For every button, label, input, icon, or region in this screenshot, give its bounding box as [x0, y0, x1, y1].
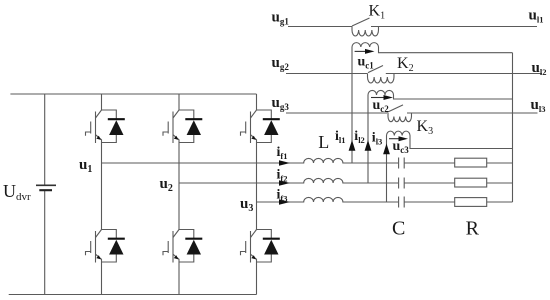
transformer K3 primary winding	[388, 113, 411, 122]
arrow u_c1 (voltage reference)	[355, 50, 366, 52]
svg-text:u1: u1	[79, 157, 92, 175]
svg-text:if2: if2	[277, 168, 288, 184]
arrow u_c3 (voltage reference)	[389, 138, 400, 140]
svg-text:uc2: uc2	[373, 98, 390, 114]
transformer K2 primary winding	[368, 74, 394, 84]
wire: DC top bus	[10, 93, 256, 95]
wire: K1 secondary right terminal to bus	[379, 47, 513, 53]
wire: R2 right to common bus	[487, 182, 513, 184]
arrow i_f1 on phase 1	[279, 160, 290, 166]
wire: riser i_l3 (K3 secondary left to phase 3)	[386, 136, 388, 203]
wire: phase line u2 with inductor L2	[179, 178, 398, 183]
transistor V2 (lower IGBT leg3 with freewheel diode)	[241, 230, 280, 263]
transistor V1 (upper IGBT leg1 with freewheel diode)	[86, 110, 125, 143]
svg-text:L: L	[318, 132, 329, 152]
arrow u_c2 (voltage reference)	[371, 97, 384, 99]
resistor R3	[455, 198, 487, 207]
arrow i_f3 on phase 3	[279, 199, 290, 205]
svg-text:K2: K2	[397, 55, 414, 74]
transformer K3 secondary winding	[387, 131, 410, 135]
resistor R1	[455, 158, 487, 167]
svg-text:u2: u2	[160, 176, 173, 194]
wire: phase line u3 with inductor L3	[257, 197, 399, 202]
capacitor C3	[399, 197, 405, 208]
capacitor C1	[399, 158, 405, 169]
svg-text:u3: u3	[240, 196, 253, 214]
wire: K3 secondary right terminal to bus	[410, 136, 513, 149]
svg-text:ug1: ug1	[272, 10, 290, 27]
svg-text:if3: if3	[277, 188, 288, 204]
capacitor C2	[399, 178, 405, 189]
wire: grid line 2 left (u_g2 side)	[286, 73, 368, 75]
transistor V4 (lower IGBT leg1 with freewheel diode)	[86, 230, 125, 263]
transistor V6 (lower IGBT leg2 with freewheel diode)	[163, 230, 202, 263]
svg-text:il3: il3	[372, 131, 383, 147]
svg-text:K3: K3	[417, 118, 434, 137]
battery U_dvr source wires	[44, 94, 46, 295]
svg-text:Udvr: Udvr	[3, 181, 31, 203]
wire: common vertical bus	[512, 53, 514, 202]
battery long plate	[36, 184, 56, 186]
arrow i_f2 on phase 2	[279, 180, 290, 186]
svg-text:if1: if1	[277, 145, 288, 161]
wire: leg 1 vertical	[101, 94, 103, 295]
transformer K1 primary winding	[352, 27, 378, 37]
svg-text:ug3: ug3	[272, 95, 290, 112]
svg-text:R: R	[466, 218, 480, 240]
arrow i_l2 on riser 2	[365, 140, 372, 151]
switch K1 blade	[352, 18, 370, 26]
wire: DC bottom bus	[9, 294, 257, 296]
transistor V5 (upper IGBT leg3 with freewheel diode)	[241, 110, 280, 143]
wire: grid line 1 left (u_g1 side)	[288, 26, 352, 28]
svg-text:ul3: ul3	[531, 97, 546, 114]
wire: C1 to R1	[404, 162, 455, 164]
resistor R2	[455, 178, 487, 187]
transformer K1 secondary winding	[352, 43, 378, 47]
wire: grid line 3 left (u_g3 side)	[286, 112, 387, 114]
svg-text:ug2: ug2	[272, 55, 290, 72]
wire: C2 to R2	[404, 182, 455, 184]
switch K3 blade	[387, 105, 403, 113]
wire: K2 secondary right terminal to bus	[394, 95, 513, 99]
arrow i_l1 on riser 1	[349, 140, 356, 151]
svg-text:C: C	[392, 218, 405, 240]
svg-text:il1: il1	[335, 129, 346, 145]
wire: phase line u1 with inductor L1	[102, 158, 399, 163]
wire: R1 right to common bus	[487, 162, 513, 164]
battery short plate	[39, 189, 52, 191]
wire: leg 3 vertical	[256, 94, 258, 295]
svg-text:ul1: ul1	[529, 8, 544, 25]
transistor V3 (upper IGBT leg2 with freewheel diode)	[163, 110, 202, 143]
svg-text:ul2: ul2	[532, 60, 547, 77]
switch K2 blade	[368, 66, 383, 73]
arrow i_l3 on riser 3	[383, 144, 390, 155]
wire: riser i_l2 (K2 secondary left to phase 2)	[367, 95, 369, 183]
transformer K2 secondary winding	[368, 90, 394, 95]
wire: leg 2 vertical	[178, 94, 180, 295]
svg-text:il2: il2	[354, 129, 365, 145]
svg-text:K1: K1	[369, 3, 386, 22]
wire: C3 to R3	[404, 201, 455, 203]
svg-text:uc3: uc3	[393, 139, 410, 155]
wire: R3 right to common bus	[487, 201, 513, 203]
wire: grid line 1 right (to u_l1)	[371, 26, 537, 28]
wire: grid line 2 right (to u_l2)	[386, 73, 542, 75]
svg-text:uc1: uc1	[358, 55, 375, 71]
wire: grid line 3 right (to u_l3)	[407, 112, 538, 114]
wire: riser i_l1 (K1 secondary left to phase 1)	[351, 47, 353, 163]
